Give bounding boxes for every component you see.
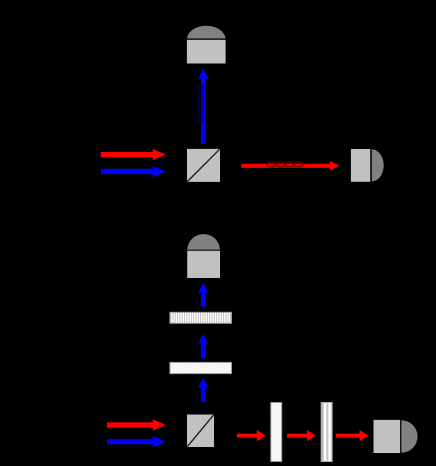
red beam arrow in (left, top setup) (101, 149, 166, 160)
detector D3 separator line (187, 250, 220, 251)
blue beam arrow in (left, bottom setup) (107, 436, 166, 447)
detector D4 body (bottom setup, right detector) (374, 420, 401, 453)
beam splitter BS2 (187, 415, 214, 448)
filter V1 stippled (vertical) (271, 403, 282, 462)
detector D2 separator line (370, 149, 372, 182)
detector D2 dome (372, 149, 384, 181)
BS2 diagonal (187, 415, 213, 447)
beam splitter BS1 (187, 149, 220, 182)
detector D1 body (187, 40, 226, 64)
red arrow 1 (BS2 to V1) (237, 430, 266, 441)
red arrow 3 (V2 to D4) (336, 430, 369, 441)
photon squiggle (red) (267, 162, 303, 166)
detector D4 separator line (400, 420, 401, 453)
blue arrow (filter F1 to D3) (198, 283, 208, 307)
blue beam arrow in (left, top setup) (101, 166, 166, 177)
photon squiggle (blue) (198, 85, 203, 122)
red arrow 2 (V1 to V2) (287, 430, 316, 441)
detector D4 dome (401, 420, 417, 453)
detector D3 body (187, 251, 220, 278)
detector D3 dome (bottom setup, top detector) (187, 234, 220, 250)
filter F2 stippled (horizontal) (170, 362, 232, 373)
detector D1 separator line (187, 38, 226, 40)
blue arrow (filter F2 to F1) (198, 334, 208, 358)
red beam arrow in (left, bottom setup) (107, 419, 166, 430)
blue beam arrow up (BS1 to D1) (198, 69, 208, 144)
BS1 diagonal (187, 149, 219, 181)
filter V2 striped (vertical) (321, 403, 332, 462)
red beam arrow right (BS1 to D2) (242, 161, 340, 171)
detector D2 body (top setup, right detector) (351, 149, 370, 182)
filter F1 striped (horizontal) (170, 312, 232, 323)
detector D1 dome (top setup, top detector) (187, 26, 226, 40)
blue arrow (BS2 to F2) (198, 378, 208, 402)
